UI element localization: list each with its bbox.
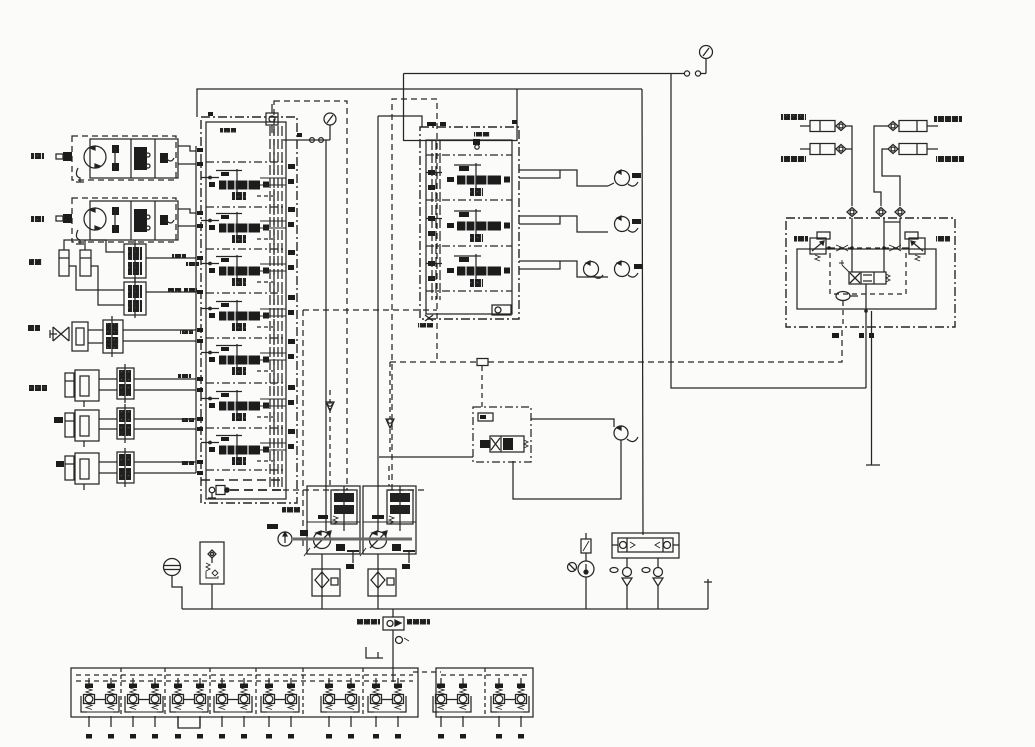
solenoid valve SV1 (480, 436, 528, 452)
label fan motor (31, 153, 44, 159)
gauge G2 (324, 113, 336, 125)
label T1b (372, 515, 384, 519)
filter check FC2 (642, 558, 663, 609)
label 70bar2 (168, 288, 182, 293)
pilot pair J1 (81, 678, 119, 739)
junction dots (827, 246, 831, 250)
check valve K4 (888, 145, 898, 154)
accumulator block AC (612, 533, 679, 558)
wire: pump2 to filter to tank (377, 554, 379, 572)
wire: gauge stem (172, 576, 182, 610)
pilot pair J8 (433, 678, 471, 739)
engine gauge G3 (278, 532, 292, 546)
wire: dashed pilot line lc (390, 361, 477, 363)
drive shaft (293, 538, 412, 541)
valve block VB5 (117, 404, 134, 443)
spool valve V6 (201, 385, 295, 421)
label shear (54, 417, 63, 423)
port label P (859, 333, 864, 338)
label 35bar (474, 132, 490, 137)
pressure gauge G1 (700, 46, 713, 59)
orifice on pilot line (477, 359, 488, 366)
wire: dashed mid line (303, 309, 437, 311)
port label T (869, 333, 874, 338)
check valve K7 (895, 208, 905, 217)
label T (512, 120, 517, 124)
wire: feed to pilot selector box (379, 456, 473, 458)
check valve K1 (836, 122, 846, 131)
port marks (197, 148, 203, 152)
label T (208, 112, 213, 116)
reducing valve RD1 (383, 617, 404, 630)
pilot pair J4 (214, 678, 252, 739)
wire: VB5 to block (134, 418, 196, 420)
pilot pair J2 (125, 678, 163, 739)
spool valve V1 travel-left (201, 164, 295, 200)
spool valve V8 swing (426, 163, 510, 196)
check valve on branch (386, 419, 394, 428)
check valve K2 (836, 145, 846, 154)
label cyl R1 (934, 116, 962, 122)
relief unit RV5 (200, 542, 224, 584)
label 3bw (267, 524, 278, 529)
wire: FM2 to block (178, 209, 196, 213)
check valve K3 (888, 122, 898, 131)
wire: dashed branch with check (389, 362, 391, 419)
tank mark under dashed line (425, 315, 433, 321)
motor M1 swing (615, 171, 630, 186)
pilot pair J7 (368, 678, 406, 739)
label 3.5MPa left (357, 619, 380, 625)
wire: VB6 to block (134, 461, 196, 463)
wires AC3 (99, 461, 117, 463)
swing brake port S1 (614, 426, 628, 440)
wire: vertical drop from gauge line to right block (404, 74, 518, 141)
M measuring line (283, 139, 330, 141)
pilot pair J3 (170, 678, 208, 739)
orifice (478, 413, 493, 421)
check valve K6 (876, 208, 886, 217)
relief R6 (396, 637, 403, 644)
wire: selector to swing circle (531, 419, 614, 427)
wire: pump1 pressure line (325, 140, 327, 531)
wires CY1 group (64, 240, 124, 252)
wire: block to M2 (519, 216, 608, 232)
dividers (120, 668, 122, 717)
wire: internal feeds (851, 218, 853, 272)
port label lc (832, 333, 839, 338)
dashed enclosure for right block pilot (392, 99, 437, 490)
filter F1 (312, 569, 340, 596)
directional valve DV1 (839, 260, 890, 284)
wire: vertical main line to accumulator (642, 89, 643, 535)
pilot valve box U3 (786, 218, 955, 327)
label 55bar (220, 128, 236, 133)
wire: VB4 to block (134, 378, 196, 380)
wire: selector return loop (513, 440, 621, 499)
label cyl L2 (781, 156, 806, 162)
actuator AC2 (65, 410, 99, 447)
cylinder C1 (800, 121, 835, 132)
bottom relief pair (209, 487, 215, 493)
spool valve V9 (426, 209, 510, 242)
internal separator lines (426, 154, 512, 156)
wire: VB2 to block (146, 291, 196, 293)
wire: pump2 to right block (378, 116, 422, 127)
wire: long top return line (197, 89, 642, 117)
wire: loop under J3 (178, 717, 200, 728)
inner pilot dashed box (830, 248, 906, 294)
wire: reducing valve to manifold (392, 630, 394, 668)
label 70bar (172, 254, 186, 259)
label 9bar right (936, 236, 950, 242)
pilot selector box U4 (473, 407, 531, 462)
wires AC1 (99, 378, 117, 380)
fan motor unit FM2 (56, 198, 178, 244)
arrows on rail (836, 245, 848, 251)
label quick coupler (29, 259, 42, 265)
pilot manifold right box (436, 668, 533, 717)
wire: C4 to block (882, 149, 900, 206)
wire: pilot supply down right side (671, 74, 866, 389)
label 9bar left (794, 236, 808, 242)
wire: top manifold line to gauge (404, 73, 685, 75)
fan motor unit FM1 (56, 136, 178, 182)
motor M2 (615, 217, 630, 232)
spool valve V10 (426, 254, 510, 287)
label cyl R2 (936, 156, 964, 162)
wire: VB3 to block (123, 329, 196, 331)
relief valve RV3 (810, 232, 830, 261)
tank stub right (707, 579, 709, 609)
valve block VB4 (117, 364, 134, 403)
wire: manifold feed (392, 668, 394, 682)
wire: C1/C2 to block (846, 126, 852, 206)
port rail (195, 146, 197, 473)
wire: dashed drop to pilot selector box (481, 366, 483, 407)
wire: block to M3/M4 (519, 261, 608, 277)
label A.T (427, 122, 436, 126)
label hammer (29, 385, 47, 391)
tank symbol TS1 (366, 647, 383, 658)
relief valve RV1 top (266, 113, 278, 125)
test coupling circles (684, 71, 689, 76)
valve block VB2 (124, 278, 146, 318)
filter check FC1 (610, 558, 632, 609)
filter F2 (368, 569, 396, 596)
connector (884, 221, 900, 223)
pump unit P1 (300, 486, 360, 556)
spool valve V5 (201, 339, 295, 375)
gauge stem wire (705, 59, 707, 74)
cylinder C3 (899, 121, 938, 132)
left port labels (186, 262, 199, 266)
valve block VB3 (103, 316, 123, 357)
label PB (56, 461, 64, 467)
wire: main tank line (182, 608, 708, 610)
relief valve RV4 (905, 232, 925, 261)
check valve K5 (847, 208, 857, 217)
main control valve block U1 outline (201, 117, 297, 503)
valve block U2 outline (420, 127, 519, 319)
inner housing (797, 249, 936, 309)
pilot enclosure dashed box (274, 101, 347, 490)
wire: FM1 to block (178, 146, 196, 151)
inner housing (206, 122, 286, 499)
label cyl L1 (781, 114, 806, 120)
spool valve V4 (201, 295, 295, 331)
wires AC2 (99, 418, 117, 420)
motor M3 travel (615, 262, 630, 277)
pilot pair J5 (261, 678, 299, 739)
pilot pair J9 (491, 678, 529, 739)
wire: pump1 to filter to tank (321, 554, 323, 572)
label grapple (28, 325, 40, 331)
gauge G5 (578, 561, 594, 577)
channel rails left (431, 140, 433, 300)
wire: dashed pump2 pilot (388, 466, 390, 486)
channel rails (269, 126, 271, 490)
label 4MPa (282, 507, 300, 513)
spool valve V2 (201, 207, 295, 243)
bottom check valve (492, 305, 511, 315)
pump unit P2 (360, 486, 416, 556)
cylinder C2 (800, 144, 835, 155)
tank symbol (866, 464, 880, 466)
label 3.5MPa right (407, 619, 430, 625)
wires RT1 group (88, 329, 103, 331)
wire: block to M1 (519, 170, 608, 186)
wire: lc internal (842, 301, 844, 327)
valve block VB6 (117, 448, 134, 487)
rotator RT1 (50, 322, 88, 351)
label T1 (318, 515, 328, 519)
inner housing (426, 140, 512, 314)
wire: relief to tank (211, 584, 213, 609)
check valve on pump1 pilot (326, 402, 334, 411)
gauge G4 (164, 559, 181, 576)
wire: P internal (865, 284, 867, 388)
internal pilot gallery (76, 674, 413, 676)
wire: T internal (871, 311, 873, 465)
label fan motor 2 (31, 216, 44, 222)
pilot piston E1 (836, 292, 850, 301)
spool valve V3 (201, 250, 295, 286)
internal separator lines (206, 161, 286, 163)
spool valve V7 (201, 429, 295, 465)
actuator AC3 (65, 453, 99, 490)
pilot pair J6 (321, 678, 359, 739)
cylinder pair CY1 (59, 244, 91, 276)
actuator AC1 (65, 370, 99, 407)
cylinder C4 (899, 144, 938, 155)
wire: dashed pump1 pilot (329, 390, 331, 486)
motor M4 (584, 262, 599, 277)
shutoff valve (581, 539, 591, 553)
wire: pump2 pressure line (377, 116, 379, 531)
valve block VB1 (124, 240, 146, 282)
wire: tank line to reducing valve (392, 609, 394, 617)
wire: C3 to block (874, 126, 888, 206)
pilot manifold left box (71, 668, 418, 717)
wire: gauge to tank line (585, 553, 587, 561)
wire: VB1 to block (146, 257, 196, 259)
